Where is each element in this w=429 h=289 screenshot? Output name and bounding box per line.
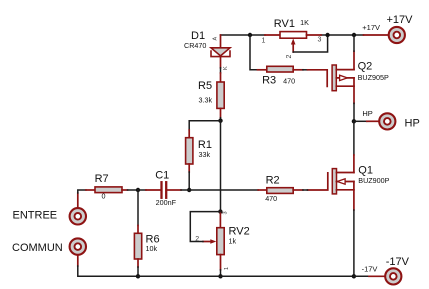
transistor Q2 xyxy=(308,51,355,103)
resistor R7 xyxy=(86,187,128,193)
svg-text:3: 3 xyxy=(318,36,322,43)
svg-text:R5: R5 xyxy=(198,80,212,92)
resistor R1 xyxy=(186,130,193,172)
svg-text:470: 470 xyxy=(283,76,295,85)
wire R3 to Q2 gate xyxy=(303,69,308,71)
node R7/R6/C1 xyxy=(136,188,140,192)
potentiometer RV1 xyxy=(265,32,321,52)
svg-text:33k: 33k xyxy=(199,150,211,159)
svg-text:C1: C1 xyxy=(155,169,169,181)
svg-text:3.3k: 3.3k xyxy=(199,96,213,105)
svg-text:RV1: RV1 xyxy=(274,18,295,30)
wire R3 branch down xyxy=(250,35,258,70)
wire COMMUN to bottom rail xyxy=(78,266,138,276)
svg-text:200nF: 200nF xyxy=(156,198,177,207)
wire node to R1 top xyxy=(189,121,220,130)
svg-text:1k: 1k xyxy=(229,236,237,245)
svg-text:+17V: +17V xyxy=(387,14,414,26)
wire R5 to node xyxy=(220,118,222,121)
wire vertical node to RV2 node xyxy=(220,121,222,212)
terminal +17V xyxy=(364,27,405,43)
wire node down to R6 xyxy=(137,190,139,226)
wire C1 to R2 xyxy=(181,189,258,191)
svg-text:-17V: -17V xyxy=(386,256,410,268)
svg-text:1: 1 xyxy=(262,37,266,44)
svg-text:3: 3 xyxy=(223,211,229,214)
wire RV2 wiper loop xyxy=(190,212,220,242)
resistor R3 xyxy=(258,66,303,72)
resistor R2 xyxy=(258,188,303,194)
wire RV1 wiper loop xyxy=(293,35,327,52)
wire ENTREE to R7 xyxy=(78,190,86,193)
svg-text:R2: R2 xyxy=(266,175,280,187)
svg-text:10k: 10k xyxy=(146,244,158,253)
wire bottom rail xyxy=(138,275,354,277)
node RV1 pin3/wiper xyxy=(325,33,329,37)
wire R1 bottom to mid rail xyxy=(188,172,190,190)
node bottom rail / Q1 source xyxy=(352,274,356,278)
wire RV2 bottom to rail xyxy=(220,270,222,277)
svg-text:HP: HP xyxy=(405,118,420,130)
wire node to C1 xyxy=(138,189,146,191)
svg-text:K: K xyxy=(223,66,229,70)
wire top rail from D1 to +17V xyxy=(221,34,251,36)
svg-text:R3: R3 xyxy=(262,74,276,86)
node HP xyxy=(352,119,356,123)
wire Q2 drain to top rail xyxy=(353,35,355,51)
wire D1 to R5 xyxy=(220,68,222,73)
wire HP node to Q1 drain xyxy=(353,121,355,155)
svg-text:+17V: +17V xyxy=(362,23,380,32)
svg-text:COMMUN: COMMUN xyxy=(12,242,63,254)
wire Q1 source to bottom rail xyxy=(353,210,355,276)
node R6 bottom xyxy=(136,274,140,278)
svg-text:1: 1 xyxy=(224,267,230,270)
capacitor C1 xyxy=(146,182,181,198)
svg-text:A: A xyxy=(213,37,219,41)
svg-text:Q2: Q2 xyxy=(358,60,373,72)
resistor R5 xyxy=(217,73,224,118)
wire R2 to Q1 gate xyxy=(303,189,308,191)
potentiometer RV2 xyxy=(203,212,224,270)
svg-text:Q1: Q1 xyxy=(358,165,373,177)
terminal ENTREE xyxy=(70,193,86,225)
svg-text:2: 2 xyxy=(286,55,293,59)
node RV2 top xyxy=(218,209,222,213)
svg-text:1K: 1K xyxy=(300,18,309,27)
wire HP node to terminal xyxy=(354,120,367,122)
svg-text:CR470: CR470 xyxy=(184,41,206,50)
diode D1 xyxy=(211,35,230,70)
svg-text:D1: D1 xyxy=(191,30,205,42)
node RV2 bottom xyxy=(218,274,222,278)
terminal COMMUN xyxy=(70,238,86,266)
node +17V rail / Q2 drain xyxy=(352,33,356,37)
svg-text:-17V: -17V xyxy=(362,264,378,273)
resistor R6 xyxy=(134,226,141,268)
svg-text:BUZ900P: BUZ900P xyxy=(358,176,389,185)
wire rail to -17V terminal xyxy=(354,275,369,277)
node R5 bottom xyxy=(218,119,222,123)
svg-text:BUZ905P: BUZ905P xyxy=(358,73,389,82)
wire R7 to node xyxy=(128,189,139,191)
svg-text:ENTREE: ENTREE xyxy=(13,209,58,221)
svg-text:0: 0 xyxy=(102,192,106,201)
svg-text:HP: HP xyxy=(362,109,372,118)
terminal -17V xyxy=(369,268,401,284)
svg-text:470: 470 xyxy=(265,194,277,203)
transistor Q1 xyxy=(308,155,354,210)
wire Q2 source to HP node xyxy=(353,103,355,121)
node D1/R3 branch xyxy=(248,33,252,37)
node R1 bottom on mid rail xyxy=(187,188,191,192)
terminal HP xyxy=(367,113,396,129)
wire R6 to bottom rail xyxy=(137,267,139,276)
svg-text:R7: R7 xyxy=(95,173,109,185)
